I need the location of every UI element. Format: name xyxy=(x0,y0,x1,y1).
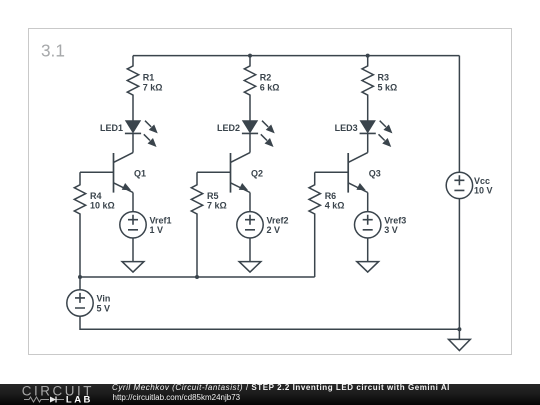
wire Vin to bottom return rail xyxy=(80,316,459,329)
svg-text:R1: R1 xyxy=(143,72,155,82)
ground under Vref2 xyxy=(239,262,261,273)
ground under Vref1 xyxy=(122,262,144,273)
svg-text:7 kΩ: 7 kΩ xyxy=(207,200,227,210)
svg-text:7 kΩ: 7 kΩ xyxy=(143,82,163,92)
svg-text:LAB: LAB xyxy=(66,395,93,405)
node junction Vcc ground xyxy=(457,327,461,331)
LED LED1 xyxy=(125,121,157,147)
svg-text:Vref3: Vref3 xyxy=(384,216,406,226)
ground bottom right xyxy=(449,339,471,350)
transistor Q3 xyxy=(348,153,368,193)
svg-text:R3: R3 xyxy=(378,72,390,82)
svg-text:10 kΩ: 10 kΩ xyxy=(90,200,115,210)
wire Q3 base lead xyxy=(315,171,349,173)
svg-text:1 V: 1 V xyxy=(150,225,164,235)
wire bottom rail to Vin xyxy=(79,277,81,290)
border frame xyxy=(29,29,512,355)
svg-text:5 V: 5 V xyxy=(97,303,111,313)
svg-text:6 kΩ: 6 kΩ xyxy=(260,82,280,92)
svg-text:Vin: Vin xyxy=(97,294,111,304)
wire top rail xyxy=(133,55,459,57)
node junction top rail branch3 xyxy=(366,54,370,58)
voltage source Vin xyxy=(67,290,93,316)
wire Vref2 to ground xyxy=(249,238,251,262)
wire Q2 base lead xyxy=(197,171,231,173)
voltage source Vref2 xyxy=(237,212,263,238)
svg-text:Q3: Q3 xyxy=(369,168,381,178)
voltage source Vref3 xyxy=(355,212,381,238)
wire LED3 to Q3 collector xyxy=(367,133,369,152)
resistor R5 xyxy=(191,172,202,277)
resistor R6 xyxy=(309,172,320,277)
wire Vref1 to ground xyxy=(132,238,134,262)
footer line 2 xyxy=(113,393,241,402)
LED LED2 xyxy=(242,121,274,147)
wire Q1 emitter to Vref1 xyxy=(132,193,134,212)
svg-text:LED3: LED3 xyxy=(335,123,358,133)
svg-text:Q1: Q1 xyxy=(134,168,146,178)
wire Vref3 to ground xyxy=(367,238,369,262)
resistor R1 xyxy=(127,56,138,121)
transistor Q1 xyxy=(114,153,134,193)
svg-text:4 kΩ: 4 kΩ xyxy=(325,200,345,210)
footer line 1 xyxy=(112,383,450,392)
ground under Vref3 xyxy=(357,262,379,273)
svg-text:3.1: 3.1 xyxy=(41,41,65,61)
svg-text:LED2: LED2 xyxy=(217,123,240,133)
wire LED1 to Q1 collector xyxy=(132,133,134,152)
resistor R2 xyxy=(244,56,255,121)
svg-text:5 kΩ: 5 kΩ xyxy=(378,82,398,92)
svg-text:Vref1: Vref1 xyxy=(150,216,172,226)
transistor Q2 xyxy=(231,153,251,193)
wire Q2 emitter to Vref2 xyxy=(249,193,251,212)
wire LED2 to Q2 collector xyxy=(249,133,251,152)
resistor R3 xyxy=(362,56,373,121)
wire Vcc bottom vertical xyxy=(458,199,460,340)
node junction top rail branch2 xyxy=(248,54,252,58)
resistor R4 xyxy=(74,172,85,277)
wire Vcc top vertical xyxy=(458,56,460,173)
node junction bottom rail R4/Vin xyxy=(78,275,82,279)
CircuitLab logo xyxy=(0,384,100,405)
footer bar xyxy=(0,384,540,405)
wire Q3 emitter to Vref3 xyxy=(367,193,369,212)
svg-text:Vref2: Vref2 xyxy=(267,216,289,226)
node junction bottom rail R5 xyxy=(195,275,199,279)
voltage source Vref1 xyxy=(120,212,146,238)
svg-text:LED1: LED1 xyxy=(100,123,123,133)
voltage source Vcc xyxy=(446,172,472,198)
svg-text:Q2: Q2 xyxy=(251,168,263,178)
LED LED3 xyxy=(360,121,392,147)
wire Q1 base lead xyxy=(80,171,114,173)
svg-text:Vcc: Vcc xyxy=(474,176,490,186)
wire bottom rail xyxy=(80,276,315,278)
svg-text:2 V: 2 V xyxy=(267,225,281,235)
svg-text:R2: R2 xyxy=(260,72,272,82)
svg-text:10 V: 10 V xyxy=(474,186,493,196)
svg-text:3 V: 3 V xyxy=(384,225,398,235)
